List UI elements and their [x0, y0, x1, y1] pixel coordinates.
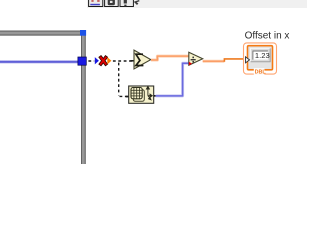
svg-text:DBL: DBL — [255, 69, 267, 75]
svg-text:1.23: 1.23 — [255, 51, 270, 60]
svg-text:Offset in x: Offset in x — [245, 30, 290, 41]
